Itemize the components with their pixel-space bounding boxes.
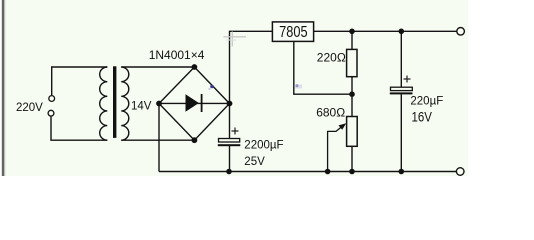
svg-text:220µF: 220µF xyxy=(410,95,443,107)
junction dot bottom rail at wiper xyxy=(325,169,331,175)
svg-text:220V: 220V xyxy=(16,102,43,114)
output terminal top xyxy=(457,28,465,36)
potentiometer R2 680ohm body xyxy=(347,117,358,147)
artifact faint grey plus near 7805 input xyxy=(224,32,247,47)
junction dot bottom rail at C2 xyxy=(399,169,405,175)
wire resistor R1 bottom to potentiometer R2 top xyxy=(351,77,353,117)
7805 ground pin wire xyxy=(294,41,352,94)
wire DC+ from bridge right vertex up and to 7805 input xyxy=(230,31,273,103)
svg-text:25V: 25V xyxy=(244,156,265,168)
svg-text:7805: 7805 xyxy=(279,24,307,42)
regulator U1 7805 box xyxy=(272,22,313,42)
artifact blue mark near 7805 ground corner xyxy=(296,84,299,87)
junction dot bottom rail at R2 xyxy=(349,169,355,175)
junction dot bridge top vertex xyxy=(192,64,198,70)
svg-text:220Ω: 220Ω xyxy=(317,51,346,65)
capacitor C1 2200uF top plate xyxy=(219,139,240,143)
wire bridge right vertex down to capacitor C1 xyxy=(229,104,231,139)
artifact blue dot on bridge edge xyxy=(210,85,214,89)
wire top rail to resistor R1 xyxy=(351,31,353,49)
svg-text:2200µF: 2200µF xyxy=(244,140,283,152)
junction dot ground pin and R1 xyxy=(349,91,355,97)
capacitor C1 plus sign xyxy=(232,128,239,135)
svg-text:14V: 14V xyxy=(131,101,152,113)
transformer primary winding xyxy=(100,67,108,140)
wire potentiometer R2 bottom to ground rail xyxy=(351,146,353,171)
ground rail (bottom) xyxy=(159,171,456,173)
transformer secondary winding xyxy=(121,67,129,140)
capacitor C2 plus sign xyxy=(404,76,411,83)
junction dot top rail at R1 xyxy=(349,29,355,35)
resistor R1 220ohm body xyxy=(347,49,357,76)
wire capacitor C1 bottom to ground rail xyxy=(229,146,231,172)
wire capacitor C2 bottom to ground rail xyxy=(400,94,402,171)
input terminal lower xyxy=(48,110,54,116)
7805 output rail (top) xyxy=(314,30,457,32)
bridge rectifier diamond xyxy=(159,67,230,140)
input terminal upper xyxy=(49,96,55,102)
svg-text:16V: 16V xyxy=(412,108,433,124)
svg-text:680Ω: 680Ω xyxy=(316,106,345,120)
diode D1 cathode bar xyxy=(201,94,203,112)
output terminal bottom xyxy=(456,168,464,176)
capacitor C2 220uF bottom plate xyxy=(390,92,413,94)
panel background xyxy=(4,0,468,176)
diode D1 line inside bridge xyxy=(159,102,230,104)
svg-text:1N4001×4: 1N4001×4 xyxy=(149,48,205,62)
wire DC- from bridge left vertex down to ground rail xyxy=(158,104,160,172)
junction dot top rail at C2 xyxy=(399,29,405,35)
wire 220V upper terminal to transformer primary top xyxy=(52,67,108,95)
junction dot bridge right vertex xyxy=(227,101,233,107)
potentiometer R2 wiper arrow xyxy=(328,125,344,171)
capacitor C1 2200uF bottom plate xyxy=(218,144,241,146)
diode D1 triangle xyxy=(186,94,199,112)
wire 220V lower terminal to transformer primary bottom xyxy=(51,116,107,140)
left grey border xyxy=(2,0,5,176)
junction dot bridge bottom vertex xyxy=(192,137,198,143)
wire secondary top to bridge top vertex xyxy=(121,66,194,68)
transformer core xyxy=(113,66,116,138)
junction dot bottom rail at C1 xyxy=(226,169,232,175)
wire top rail to capacitor C2 xyxy=(400,31,402,87)
junction dot bridge left vertex xyxy=(156,101,162,107)
capacitor C2 220uF top plate xyxy=(391,87,413,90)
wire secondary bottom to bridge bottom vertex xyxy=(121,139,194,141)
